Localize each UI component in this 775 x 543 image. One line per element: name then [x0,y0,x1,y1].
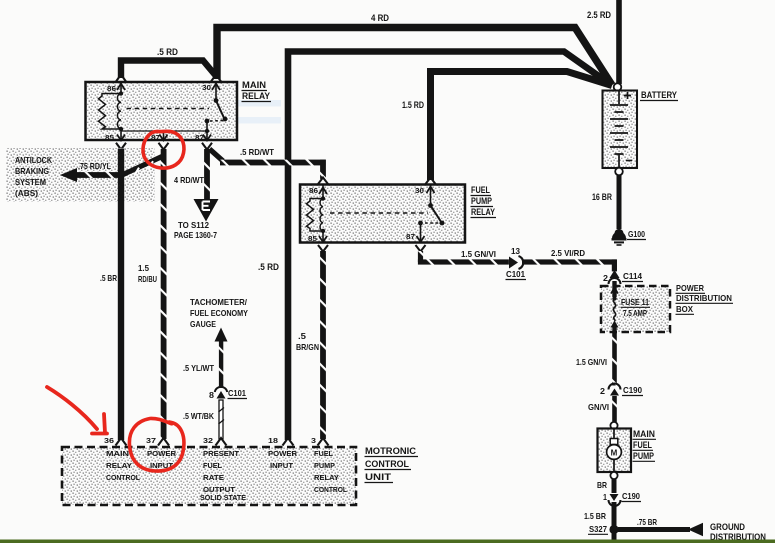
svg-text:36: 36 [104,438,114,445]
svg-text:TACHOMETER/: TACHOMETER/ [190,298,248,307]
svg-text:GAUGE: GAUGE [190,320,216,329]
svg-text:7.5 AMP: 7.5 AMP [623,309,647,318]
svg-text:30: 30 [415,188,424,195]
svg-text:TO S112: TO S112 [178,221,209,230]
svg-text:FUEL: FUEL [314,451,334,458]
connector C190 pin 2 [600,384,643,396]
connector C190 pin 1 [603,492,641,506]
svg-text:S327: S327 [589,525,607,534]
node pump - terminal [610,472,617,479]
svg-text:FUEL: FUEL [633,440,652,450]
node pump + terminal [610,422,617,429]
svg-text:.5 BR: .5 BR [100,274,117,283]
svg-text:3: 3 [311,438,316,445]
fuel pump relay pin 86 [309,178,328,198]
fuel pump relay resistor [307,199,324,232]
svg-text:2.5 RD: 2.5 RD [587,10,611,20]
svg-text:.75 RD/YL: .75 RD/YL [78,162,111,171]
svg-text:RELAY: RELAY [242,91,270,101]
svg-text:18: 18 [268,438,278,445]
main fuel pump [598,429,657,473]
svg-text:1.5 RD: 1.5 RD [402,100,424,110]
main relay internal link 87-87 [121,130,207,132]
svg-text:PUMP: PUMP [471,196,492,206]
motronic control unit box [62,446,418,505]
motronic pin 36 main relay control [104,438,141,482]
svg-text:RELAY: RELAY [106,463,132,470]
svg-text:FUSE 11: FUSE 11 [621,298,649,307]
node S327 [588,525,619,534]
svg-text:.5 YL/WT: .5 YL/WT [183,364,214,373]
main relay coil [117,91,123,131]
svg-text:.75 BR: .75 BR [637,518,657,527]
wire 1.5 RD (battery to fuel pump relay 30) [402,72,612,181]
svg-text:1.5: 1.5 [138,264,149,273]
svg-text:2: 2 [600,387,605,396]
svg-text:POWER: POWER [147,451,176,458]
svg-text:INPUT: INPUT [270,463,294,470]
svg-text:BRAKING: BRAKING [15,167,49,176]
connector C101 pin 8 [209,387,247,400]
fuel pump relay pin 87 [406,223,426,252]
wire .5 RD/WT (main relay 87 to fuel pump relay 86) [210,148,326,179]
wire 1.5 GN/VI (fuse to C190) [576,332,617,386]
wire 1.5 GN/VI (fuel pump relay 87 to C101) [418,250,509,265]
svg-text:FUEL: FUEL [203,463,223,470]
power distribution box [601,284,733,332]
green footer band [0,540,775,543]
main relay pin 87 (right) [195,131,212,150]
fuse 11 [611,281,651,332]
svg-text:32: 32 [203,438,213,445]
tachometer / fuel economy gauge [190,298,248,342]
svg-text:85: 85 [105,135,114,142]
motronic pin 3 fuel pump relay control [311,438,348,494]
svg-text:CONTROL: CONTROL [314,487,348,494]
wire 16 BR (battery to G100) [592,175,619,229]
svg-text:PUMP: PUMP [633,451,654,461]
ABS block [6,148,155,202]
svg-text:OUTPUT: OUTPUT [203,487,236,494]
svg-text:M: M [611,449,618,458]
red annotation circle on main relay 87 [143,131,184,168]
svg-text:1: 1 [603,493,607,502]
svg-text:.5 RD/WT: .5 RD/WT [240,148,274,157]
svg-text:FUEL: FUEL [471,185,490,195]
wire .5 RD (main relay 86 to 30 loop) [121,47,216,78]
fuel pump relay coil [320,196,325,233]
wire GN/VI (C190 to pump) [588,396,617,422]
svg-text:DISTRIBUTION: DISTRIBUTION [676,294,732,303]
wire .5 RD (battery to motronic pin 18) [258,52,612,441]
battery [603,90,679,168]
svg-text:4 RD/WT: 4 RD/WT [174,176,204,185]
svg-text:8: 8 [209,391,214,400]
connector C101 pin 13 [506,247,527,280]
svg-text:GROUND: GROUND [710,522,745,532]
svg-text:SOLID STATE: SOLID STATE [200,493,246,502]
svg-text:MAIN: MAIN [633,429,655,439]
svg-text:ANTILOCK: ANTILOCK [15,156,52,165]
wire BR (pump to C190) [597,479,614,493]
svg-text:RATE: RATE [203,475,224,482]
ground G100 [612,229,647,245]
motronic pin 32 present fuel rate output [203,438,240,494]
svg-text:.5 WT/BK: .5 WT/BK [183,412,214,421]
main relay actuation dashed line [127,108,210,110]
svg-text:PAGE 1360-7: PAGE 1360-7 [174,231,217,240]
svg-text:1.5 GN/VI: 1.5 GN/VI [461,250,496,259]
svg-text:C114: C114 [623,272,642,281]
svg-text:RELAY: RELAY [471,207,495,217]
main relay resistor [99,94,122,130]
svg-text:C190: C190 [623,386,642,395]
svg-text:UNIT: UNIT [365,472,392,482]
wire .5 BR (main relay 85 to motronic 36) [100,149,121,441]
svg-text:BATTERY: BATTERY [641,90,677,100]
svg-text:MAIN: MAIN [106,451,129,458]
fuel pump relay pin 85 [308,231,328,252]
svg-text:CONTROL: CONTROL [106,475,141,482]
svg-text:BR/GN: BR/GN [296,343,319,352]
connector C114 pin 2 [603,270,643,284]
svg-text:G100: G100 [628,230,645,239]
wire 1.5 RD/BU (main relay 87 to motronic 37) [138,149,167,439]
svg-text:1.5 BR: 1.5 BR [584,512,606,521]
svg-text:BR: BR [597,481,607,490]
svg-text:POWER: POWER [676,284,704,293]
svg-text:86: 86 [107,86,116,93]
watermark highlight bands [130,100,281,107]
wire .5 BR/GN (fuel pump relay 85 to motronic 3) [296,251,326,439]
svg-text:PUMP: PUMP [314,463,335,470]
svg-text:RD/BU: RD/BU [138,275,157,284]
svg-text:2.5 VI/RD: 2.5 VI/RD [551,249,585,258]
svg-text:GN/VI: GN/VI [588,403,609,412]
wire 2.5 VI/RD (C101 to C114) [522,249,617,271]
svg-text:CONTROL: CONTROL [365,459,409,469]
wire .75 BR (S327 to ground distribution) [618,518,766,542]
svg-text:PRESENT: PRESENT [203,451,240,458]
off-page arrow E to S112 [174,199,219,240]
svg-text:30: 30 [202,85,211,92]
fuel pump relay box [300,185,496,243]
wire 4 RD/WT (main relay 87 right, down to E) [174,149,210,200]
main relay pin 86 [107,75,126,94]
svg-text:37: 37 [146,438,156,445]
svg-text:C101: C101 [228,389,246,398]
node battery + terminal [614,83,622,91]
svg-text:RELAY: RELAY [314,475,339,482]
svg-text:.5 RD: .5 RD [258,262,279,272]
svg-text:(ABS): (ABS) [15,189,38,198]
motronic pin 18 power input [268,438,297,470]
svg-text:BOX: BOX [676,305,694,314]
svg-text:1.5 GN/VI: 1.5 GN/VI [576,358,607,367]
wire 2.5 RD (top to battery) [587,0,619,84]
svg-text:13: 13 [511,247,520,256]
main relay pin 85 [105,129,126,150]
svg-text:2: 2 [603,274,608,283]
node battery - terminal [615,168,623,176]
wire 1.5 BR (C190 to S327) [584,502,614,541]
svg-text:C190: C190 [622,492,640,501]
svg-text:POWER: POWER [268,451,297,458]
fuel pump relay pin 30 and switch [415,178,444,226]
wire .5 WT/BK (C101 to motronic 32) [183,400,224,439]
main relay pin 87 (middle) [151,131,169,150]
svg-text:4 RD: 4 RD [371,13,389,23]
svg-text:87: 87 [151,135,160,142]
wire .5 YL/WT (gauge to C101) [183,341,223,388]
wire 4 RD (main relay 30 to battery) [217,13,612,85]
wire .75 RD/YL to ABS [60,157,162,183]
motronic pin 37 power input [146,438,176,470]
svg-text:MOTRONIC: MOTRONIC [365,446,417,456]
main relay pin 30 and switch [202,75,227,134]
svg-text:SYSTEM: SYSTEM [15,178,46,187]
red annotation arrow to motronic 36 area [47,387,107,434]
svg-text:85: 85 [308,236,317,243]
svg-text:FUEL ECONOMY: FUEL ECONOMY [190,309,248,318]
svg-text:C101: C101 [506,270,525,279]
svg-text:.5: .5 [298,332,307,341]
svg-text:87: 87 [406,234,415,241]
svg-text:86: 86 [309,188,318,195]
svg-text:.5 RD: .5 RD [157,47,178,57]
main relay box [86,80,272,140]
svg-text:MAIN: MAIN [242,80,266,90]
svg-text:16 BR: 16 BR [592,192,612,202]
fuel pump relay actuation dashed line [330,212,428,214]
red annotation circle on motronic 37 power input [129,418,184,471]
svg-text:87: 87 [195,135,204,142]
